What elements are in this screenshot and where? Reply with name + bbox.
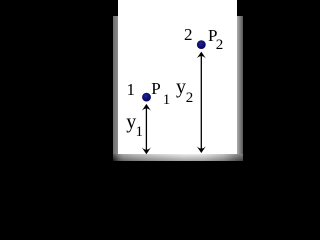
point P1 ball [142,93,151,102]
label 1 [127,81,136,98]
label y1 [126,112,136,132]
floor band [113,154,243,161]
right wall strip [237,16,243,161]
point P2 ball [197,40,206,49]
label P1 [151,80,160,97]
label 2 [184,26,193,43]
white background panel [118,0,237,154]
left wall strip [113,16,119,161]
label P2 [208,27,217,44]
label y2 [176,77,186,97]
arrow y1 (double-headed) [142,104,151,154]
arrow y2 (double-headed) [197,52,206,153]
